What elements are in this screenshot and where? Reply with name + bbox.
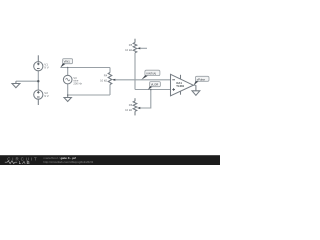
svg-text:R6: R6 [129,103,133,107]
label OA1 TL081 [176,81,184,88]
svg-text:LAB: LAB [19,160,31,165]
svg-text:VLOR: VLOR [151,83,159,87]
sine source V3 [63,75,72,84]
wire bottom rail [68,94,110,96]
label R6 10k [125,103,133,112]
net flag VPWM [194,76,209,85]
svg-text:10 kΩ: 10 kΩ [125,108,132,112]
label R5 10k [125,43,133,52]
ground under V3 [64,95,71,102]
svg-text:9 V: 9 V [44,94,49,98]
label V2 9V [44,91,49,98]
net flag VIN1 [60,59,72,68]
label V1 9V [44,62,49,69]
potentiometer R6 [133,98,140,115]
net flag VINT(A) [141,70,160,80]
wire top VIN node [61,67,111,69]
svg-text:R4: R4 [104,73,108,77]
wire to ground left [16,80,38,82]
svg-text:9 V: 9 V [44,66,49,70]
svg-text:10 kΩ: 10 kΩ [100,78,107,82]
label R4 10k [100,73,108,82]
wire minus input [113,79,171,81]
svg-text:TL081: TL081 [176,84,184,88]
node junction plus net [150,89,152,91]
voltage source V2 [34,90,43,105]
svg-text:10 kΩ: 10 kΩ [125,48,132,52]
svg-text:VIN1: VIN1 [64,60,71,64]
voltage source V1 [34,55,43,70]
ground left [12,81,20,88]
node junction V3 bottom [67,94,69,96]
wire V3 top stub [67,68,69,76]
node junction V1/V2/gnd [37,80,39,82]
node junction VIN top [67,67,69,69]
ground at output [192,85,200,95]
wire R5 bottom to plus node [134,53,136,90]
svg-text:http://circuitlab.com/c6kqmg6s: http://circuitlab.com/c6kqmg6s3w5zf4 [43,160,93,164]
wire R4 top [109,68,111,73]
svg-text:VINT(A): VINT(A) [146,71,156,75]
wire R4 bottom [109,85,111,96]
footer text [43,156,93,164]
potentiometer R5 [133,39,140,53]
svg-text:200 Hz: 200 Hz [73,82,82,86]
svg-text:R5: R5 [129,43,133,47]
potentiometer R4 [108,73,115,85]
wire V1 to V2 [37,71,39,90]
wire plus input [135,89,171,91]
wire op-amp output [193,84,196,86]
net flag VLOR [148,82,160,90]
label V3 sine 200Hz [73,76,82,86]
wire R5 wiper stub [140,47,147,49]
wire V3 bottom [67,84,69,95]
svg-text:vPulse: vPulse [197,77,206,81]
wire down to R6 wiper [140,90,151,109]
CircuitLab logo [5,156,39,165]
op-amp OA1 [171,74,194,96]
